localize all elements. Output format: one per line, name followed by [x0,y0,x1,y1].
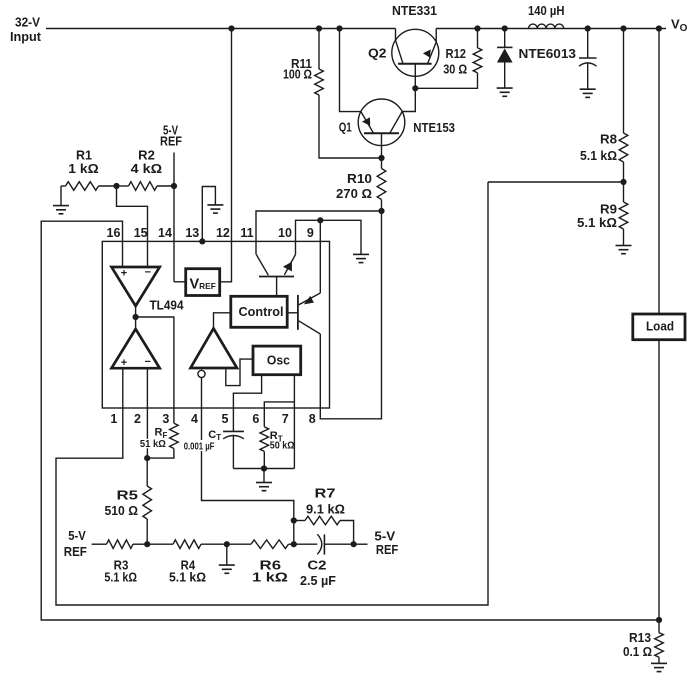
svg-text:R10: R10 [347,172,372,186]
svg-text:2.5 µF: 2.5 µF [300,574,336,588]
svg-text:5.1 kΩ: 5.1 kΩ [104,571,137,585]
svg-text:REF: REF [64,545,87,559]
svg-text:32-V: 32-V [15,16,41,30]
svg-text:R5: R5 [117,489,139,503]
svg-text:4 kΩ: 4 kΩ [131,162,162,176]
svg-text:100 Ω: 100 Ω [283,68,312,82]
svg-text:Q1: Q1 [339,121,352,135]
svg-text:C2: C2 [307,559,326,573]
svg-text:1 kΩ: 1 kΩ [68,162,98,176]
svg-text:9: 9 [307,226,314,240]
svg-text:R13: R13 [629,631,651,645]
svg-text:1 kΩ: 1 kΩ [252,571,288,585]
svg-text:R1: R1 [76,149,92,163]
svg-text:12: 12 [216,226,230,240]
svg-text:TL494: TL494 [150,298,184,312]
svg-text:R2: R2 [138,149,155,163]
svg-text:4: 4 [191,412,198,426]
svg-text:−: − [145,267,151,279]
svg-text:51 kΩ: 51 kΩ [140,438,166,450]
svg-text:R9: R9 [600,202,617,216]
svg-text:15: 15 [134,226,148,240]
svg-text:8: 8 [309,412,316,426]
svg-text:50 kΩ: 50 kΩ [270,440,295,452]
svg-text:30 Ω: 30 Ω [443,62,467,76]
svg-text:−: − [144,356,150,368]
svg-text:140 µH: 140 µH [528,4,565,18]
svg-text:13: 13 [185,226,199,240]
svg-text:Input: Input [10,30,42,44]
svg-text:11: 11 [240,226,253,240]
svg-text:510 Ω: 510 Ω [105,504,139,518]
svg-text:+: + [121,357,127,369]
svg-text:14: 14 [158,226,172,240]
svg-text:Control: Control [239,305,284,319]
svg-text:Load: Load [646,319,674,334]
svg-text:+: + [121,268,127,280]
svg-text:Q2: Q2 [368,47,387,61]
svg-text:REF: REF [376,543,399,557]
svg-text:5-V: 5-V [68,529,86,543]
svg-text:5: 5 [222,412,229,426]
svg-text:5.1 kΩ: 5.1 kΩ [580,149,617,163]
svg-text:R12: R12 [446,47,467,61]
svg-text:NTE6013: NTE6013 [519,47,577,61]
svg-text:16: 16 [107,226,121,240]
svg-text:NTE331: NTE331 [392,4,437,18]
svg-text:10: 10 [278,226,292,240]
svg-text:3: 3 [162,412,169,426]
svg-text:REF: REF [160,135,182,149]
svg-text:Osc: Osc [267,353,290,368]
svg-text:1: 1 [110,412,117,426]
svg-text:R7: R7 [315,487,336,501]
svg-text:R8: R8 [600,132,617,146]
svg-text:2: 2 [134,412,141,426]
svg-text:0.1 Ω: 0.1 Ω [623,645,652,659]
svg-text:6: 6 [252,412,259,426]
svg-text:5.1 kΩ: 5.1 kΩ [169,571,206,585]
svg-text:0.001 µF: 0.001 µF [184,440,215,452]
svg-text:9.1 kΩ: 9.1 kΩ [306,503,345,517]
svg-text:270 Ω: 270 Ω [336,187,372,201]
svg-text:5.1 kΩ: 5.1 kΩ [577,216,617,230]
svg-text:7: 7 [282,412,289,426]
svg-text:NTE153: NTE153 [413,121,455,135]
svg-text:5-V: 5-V [374,530,396,544]
